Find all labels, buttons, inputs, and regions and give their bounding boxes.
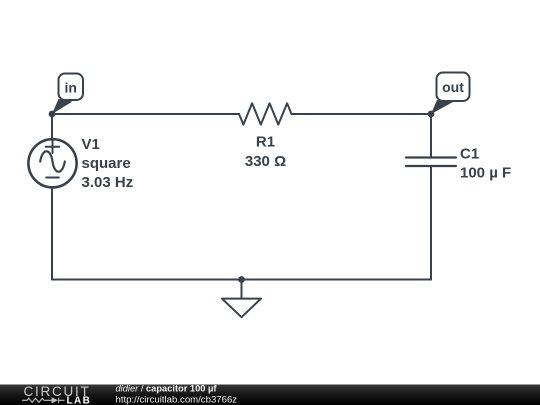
flag out tail [431, 100, 453, 114]
V1 minus sign [46, 177, 59, 179]
svg-text:V1: V1 [82, 136, 100, 153]
logo diode triangle [52, 397, 59, 403]
wire right vertical lower (C1 to bottom rail) [430, 167, 432, 280]
flag in tail [52, 99, 73, 114]
wire top left (node in to R1) [52, 113, 239, 115]
svg-text:didier / capacitor 100 µf: didier / capacitor 100 µf [116, 384, 218, 394]
svg-text:R1: R1 [256, 134, 275, 151]
wire top right (R1 to node out) [292, 113, 432, 115]
ground symbol [222, 299, 261, 318]
flag out box [437, 73, 470, 102]
svg-text:3.03 Hz: 3.03 Hz [82, 174, 134, 191]
svg-text:100 µ F: 100 µ F [460, 165, 511, 182]
V1 sine waveform [40, 151, 65, 172]
voltage source V1 [28, 139, 76, 187]
svg-text:330 Ω: 330 Ω [245, 153, 286, 170]
wire left vertical upper (node in to V1) [51, 114, 53, 139]
footer bar [0, 385, 540, 405]
ground stub wire [241, 280, 243, 299]
logo resistor-diode glyph [22, 398, 65, 403]
svg-text:LAB: LAB [67, 396, 92, 405]
svg-text:square: square [82, 155, 131, 172]
capacitor C1 top plate [406, 156, 456, 158]
capacitor C1 bottom plate [406, 165, 456, 167]
ground junction dot [238, 276, 245, 283]
wire bottom rail [52, 279, 431, 281]
svg-text:in: in [64, 80, 76, 96]
node out junction dot [428, 111, 435, 118]
node in junction dot [49, 111, 56, 118]
wire right vertical upper (node out to C1) [430, 114, 432, 157]
resistor R1 [239, 103, 292, 124]
svg-text:out: out [442, 79, 464, 95]
wire left vertical lower (V1 to bottom rail) [51, 187, 53, 280]
svg-text:http://circuitlab.com/cb3766z: http://circuitlab.com/cb3766z [116, 395, 238, 405]
svg-text:C1: C1 [460, 146, 479, 163]
V1 plus sign [46, 140, 59, 153]
flag in box [59, 74, 84, 101]
